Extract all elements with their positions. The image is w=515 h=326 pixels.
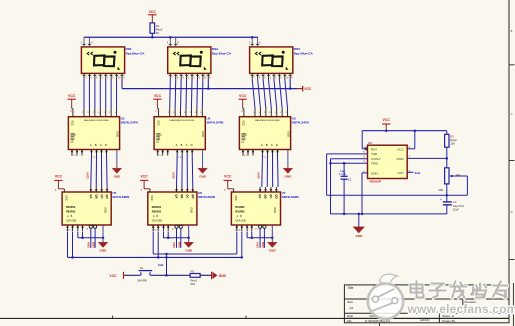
svg-text:Cap Pol1: Cap Pol1 [453, 204, 465, 208]
wires U2 inputs to counter outputs [177, 155, 193, 188]
svg-text:A: A [176, 143, 178, 147]
svg-text:3 5 4: 3 5 4 [242, 155, 248, 157]
svg-text:A B: A B [67, 215, 73, 218]
svg-text:B: B [181, 143, 183, 147]
power port +VCC [296, 86, 312, 92]
7-segment display DS2 Dpy Blue-CA [168, 47, 211, 74]
power port VCC (switch) [110, 272, 124, 279]
U7 reset wires to ground [247, 232, 272, 238]
svg-text:2 3 6 7: 2 3 6 7 [66, 229, 73, 231]
U3 top pin stubs and numbers [241, 109, 289, 117]
junction reset wire (U7) [251, 236, 254, 239]
junction reset wire (U5) [81, 236, 84, 239]
svg-text:R01R02: R01R02 [152, 206, 162, 209]
svg-text:510: 510 [191, 282, 196, 286]
wire top anode bus [84, 36, 258, 38]
svg-text:D: D [105, 143, 107, 147]
U7 reset input pins [235, 225, 253, 231]
svg-text:3 5 4: 3 5 4 [71, 155, 77, 157]
DS1 anode pins 3,8 to top bus [81, 37, 94, 47]
DS2 anode pins 3,8 to top bus [167, 36, 180, 47]
svg-text:CKA: CKA [172, 242, 176, 248]
label U3 [292, 116, 309, 124]
svg-text:D: D [191, 143, 193, 147]
svg-text:R5: R5 [191, 269, 195, 273]
wire 555 top bus [362, 131, 447, 149]
svg-text:3 5 4: 3 5 4 [157, 155, 163, 157]
wire OUT [407, 171, 413, 173]
svg-text:THR: THR [371, 152, 378, 156]
border zone letters right edge [511, 29, 513, 214]
svg-text:R4: R4 [456, 173, 460, 177]
svg-text:SN74LS47N: SN74LS47N [292, 120, 309, 124]
wire switch node to bus [166, 254, 168, 275]
title block frame [344, 285, 509, 323]
label U6 [198, 191, 215, 199]
DS2 cathode pins (bottom) [169, 73, 212, 79]
svg-text:Res2: Res2 [450, 138, 457, 142]
svg-text:D: D [276, 143, 278, 147]
U1 top pin stubs and numbers [70, 109, 118, 117]
555 pin numbers [363, 146, 410, 173]
svg-text:U4: U4 [368, 141, 372, 145]
svg-text:RST: RST [371, 147, 377, 151]
svg-text:QB: QB [94, 194, 98, 198]
svg-text:CKB: CKB [92, 242, 96, 248]
svg-text:1Hz: 1Hz [415, 171, 421, 175]
svg-text:1FA01FB01FC01FD01FE0: 1FA01FB01FC01FD01FE0 [84, 119, 110, 122]
svg-text:20K: 20K [438, 188, 443, 192]
svg-text:B: B [95, 143, 97, 147]
sheet bottom border [0, 317, 509, 319]
svg-text:SW-PB: SW-PB [137, 278, 146, 282]
svg-text:GND: GND [355, 234, 363, 238]
svg-text:SN74LS47N: SN74LS47N [121, 120, 138, 124]
segment wires DS2 to U2 [170, 79, 203, 109]
svg-text:VCC: VCC [234, 195, 238, 201]
ground (U5) [98, 242, 108, 252]
svg-text:Dpy Blue-CA: Dpy Blue-CA [126, 51, 146, 55]
U7 GND pin wire [271, 225, 273, 242]
svg-text:QB: QB [180, 194, 184, 198]
border zone tick marks right edge [509, 65, 515, 260]
svg-text:CKA: CKA [86, 242, 90, 248]
svg-text:S1: S1 [140, 266, 144, 270]
U5 reset input pins [66, 225, 84, 231]
svg-text:GND: GND [104, 207, 108, 213]
U3 BCD input pins A-D [261, 150, 279, 160]
wire clock bus B [68, 232, 242, 258]
svg-text:VCC: VCC [156, 120, 160, 126]
U6 clock pins CKA CKB (bubbles) [171, 225, 182, 248]
wire S1 to R5 [154, 274, 190, 276]
junction R1/top bus [151, 36, 154, 39]
svg-text:GND: GND [273, 207, 277, 213]
svg-text:A B: A B [152, 215, 158, 218]
label U2 [207, 116, 224, 124]
svg-text:CKA CKB: CKA CKB [235, 220, 245, 223]
svg-text:VCC: VCC [242, 120, 246, 126]
svg-text:B: B [266, 143, 268, 147]
resistor R1 1K [150, 23, 163, 35]
DS3 anode pins 3,8 to top bus [249, 36, 262, 47]
U1 bottom input pins LT RBI RBO [71, 150, 84, 157]
wire 555 ground bus [331, 213, 447, 215]
junction switch node [165, 274, 168, 277]
junction GND wire (U5) [102, 236, 105, 239]
title block texts [347, 286, 476, 323]
net labels CKA CKB (vertical red) [86, 242, 95, 248]
junction bus B / U7 pin [241, 256, 244, 259]
svg-text:GND: GND [285, 175, 293, 179]
junction gnd symbol / ground bus [358, 213, 361, 216]
DS1 cathode pins (bottom) [83, 73, 126, 79]
ground (U1) [112, 168, 122, 178]
svg-text:C: C [511, 112, 513, 116]
svg-text:VCC: VCC [110, 274, 118, 278]
sheet right border [508, 0, 510, 323]
power port VCC (U7) [224, 174, 234, 192]
junction C1 / ground bus [343, 213, 346, 216]
svg-text:Title: Title [348, 286, 354, 290]
svg-text:CKA CKB: CKA CKB [152, 220, 162, 223]
svg-text:R01R02: R01R02 [66, 206, 76, 209]
svg-text:C: C [100, 143, 102, 147]
U6 reset input pins [152, 225, 170, 231]
wire +VCC bus (displays common) [122, 79, 298, 89]
U1 GND pin wire [116, 150, 118, 169]
power port VCC (555) [382, 118, 390, 131]
label U1 [121, 116, 138, 124]
svg-text:QA0: QA0 [257, 172, 261, 179]
svg-text:1K: 1K [156, 31, 160, 35]
svg-text:QA0: QA0 [171, 172, 175, 179]
U6 reset wires to ground [164, 232, 189, 238]
counter U5 SN74LS90N [62, 192, 111, 225]
wires U3 inputs to counter outputs [262, 155, 278, 188]
U5 clock pins CKA CKB (bubbles) [86, 225, 97, 248]
svg-text:Date: Date [347, 314, 354, 318]
svg-text:R3: R3 [450, 135, 454, 139]
svg-text:A B: A B [236, 215, 242, 218]
svg-text:A: A [90, 143, 92, 147]
svg-text:R91R92: R91R92 [152, 210, 162, 213]
svg-text:R91R92: R91R92 [66, 210, 76, 213]
svg-text:VCC: VCC [55, 174, 63, 178]
wire 555 GND pin down [362, 173, 368, 214]
outer border bottom right [512, 283, 514, 326]
junction DS2 pin to +VCC bus [207, 87, 210, 90]
wire clock bus A [153, 232, 237, 255]
wire R5 to GND [200, 274, 212, 276]
junction switch node / bus A [165, 253, 168, 256]
net labels CKA CKB (vertical red) [256, 242, 265, 248]
svg-text:22K: 22K [450, 141, 455, 145]
junction C1 top / TRIG wire [343, 162, 346, 165]
svg-text:VCC: VCC [140, 174, 148, 178]
svg-text:CVOLT: CVOLT [371, 157, 381, 161]
wire DISC to R3 bottom [407, 157, 447, 159]
svg-text:VCC: VCC [224, 174, 232, 178]
svg-text:GND: GND [371, 171, 379, 175]
svg-text:SN74LS90N: SN74LS90N [282, 195, 299, 199]
svg-text:C: C [186, 143, 188, 147]
net labels CKA CKB (vertical red) [172, 242, 181, 248]
U5 reset wires to ground [78, 232, 103, 238]
svg-text:D: D [511, 210, 513, 214]
svg-text:GND: GND [219, 274, 227, 278]
svg-text:VCC: VCC [154, 94, 162, 98]
junction DISC/R3/pot [446, 157, 449, 160]
ground (U7) [268, 242, 278, 252]
svg-text:SN74LS47N: SN74LS47N [207, 120, 224, 124]
watermark text dianzifashaoyou [411, 282, 508, 298]
svg-text:2 3 6 7: 2 3 6 7 [235, 229, 242, 231]
wires U1 inputs to counter outputs [91, 155, 107, 188]
wire timing node bus [327, 194, 468, 196]
U5 output pin stubs QA-QD [90, 187, 110, 192]
power port VCC (top, for R1) [148, 10, 156, 23]
svg-text:CKA: CKA [256, 242, 260, 248]
title block bottom zone tick [378, 323, 380, 326]
U2 GND pin wire [202, 150, 204, 169]
segment wires DS3 to U3 [252, 79, 287, 109]
svg-text:QD: QD [105, 194, 109, 198]
svg-text:VCC: VCC [383, 118, 391, 122]
svg-text:R91R92: R91R92 [235, 210, 245, 213]
junction pin8 riser / top bus [414, 129, 417, 132]
wire R1 bottom to top bus [151, 33, 153, 37]
svg-text:File: File [347, 319, 352, 323]
svg-text:+: + [440, 198, 442, 202]
power port VCC (U6) [140, 174, 150, 192]
svg-text:Drawn By:: Drawn By: [442, 319, 456, 323]
svg-text:SN74LS90N: SN74LS90N [112, 195, 129, 199]
7-segment display DS1 Dpy Blue-CA [81, 47, 124, 74]
svg-text:C1: C1 [348, 178, 352, 182]
U1 BCD input pins A-D [90, 150, 108, 160]
svg-text:SN74LS90N: SN74LS90N [198, 195, 215, 199]
border zone tick marks bottom edge [113, 316, 246, 319]
svg-text:R01R02: R01R02 [235, 206, 245, 209]
junction VCC / top bus [385, 129, 388, 132]
7-segment display DS3 Dpy Blue-CA [250, 47, 293, 74]
U7 clock pins CKA CKB (bubbles) [255, 225, 266, 248]
segment wires DS1 to U1 [84, 79, 117, 109]
junction DS3 pin to +VCC bus [289, 87, 292, 90]
junction reset wire (U6) [167, 236, 170, 239]
svg-text:QD: QD [274, 194, 278, 198]
svg-text:2 3 6 7: 2 3 6 7 [152, 229, 159, 231]
ground (U3) [283, 168, 293, 178]
junction GND pin / ground bus [361, 213, 364, 216]
svg-text:VCC: VCC [71, 120, 75, 126]
svg-text:DISC: DISC [397, 157, 405, 161]
wire TRIG [331, 162, 368, 164]
wire to ground symbol [358, 214, 360, 227]
svg-text:Size: Size [347, 300, 353, 304]
svg-text:Dpy Blue-CA: Dpy Blue-CA [294, 51, 314, 55]
svg-text:A4: A4 [350, 306, 354, 310]
svg-text:VCC: VCC [68, 94, 76, 98]
svg-text:GND: GND [114, 175, 122, 179]
svg-text:QB: QB [264, 194, 268, 198]
svg-text:GND: GND [269, 249, 277, 253]
ground (U2) [198, 168, 208, 178]
power port VCC (U2) [153, 94, 161, 109]
svg-text:CKA CKB: CKA CKB [66, 220, 76, 223]
svg-text:QD: QD [191, 194, 195, 198]
junction GND wire (U7) [271, 236, 274, 239]
label DS2 [212, 47, 232, 55]
svg-text:OUT: OUT [397, 171, 404, 175]
potentiometer R4 20K [438, 158, 467, 202]
svg-text:B: B [511, 29, 513, 33]
svg-text:VCC: VCC [304, 87, 312, 91]
ground (U6) [184, 242, 194, 252]
ground (555) [353, 227, 365, 238]
svg-text:CKB: CKB [177, 242, 181, 248]
resistor R5 510 [190, 269, 200, 285]
svg-text:A: A [261, 143, 263, 147]
svg-text:1FA01FB01FC01FD01FE0: 1FA01FB01FC01FD01FE0 [255, 119, 281, 122]
svg-text:NE555P: NE555P [370, 179, 382, 183]
decoder U2 SN74LS47N [154, 117, 205, 150]
decoder U1 SN74LS47N [68, 117, 119, 150]
svg-text:TRIG: TRIG [371, 162, 379, 166]
svg-text:GND: GND [199, 175, 207, 179]
svg-text:Dpy Blue-CA: Dpy Blue-CA [212, 51, 232, 55]
svg-text:GND: GND [100, 249, 108, 253]
svg-text:VCC: VCC [150, 195, 154, 201]
svg-text:1FA01FB01FC01FD01FE0: 1FA01FB01FC01FD01FE0 [169, 119, 195, 122]
power port GND (right arrow style) [212, 272, 227, 280]
junction TRIG/CVOLT riser [329, 162, 332, 165]
capacitor C2 Cap Pol1 22uF [440, 198, 464, 214]
wire THR to timing node [327, 154, 368, 195]
U7 output pin stubs QA-QD [259, 187, 279, 192]
svg-text:GND: GND [185, 249, 193, 253]
junction bus B / U5 pin [71, 256, 74, 259]
label U7 [282, 191, 299, 199]
svg-text:VCC: VCC [65, 195, 69, 201]
wire VCC to S1 [124, 274, 137, 276]
U6 output pin stubs QA-QD [175, 187, 195, 192]
junction switch node / bus B [165, 256, 168, 259]
U3 bottom input pins LT RBI RBO [242, 150, 255, 157]
U2 BCD input pins A-D [176, 150, 194, 160]
wire CVOLT [331, 159, 368, 214]
counter U6 SN74LS90N [148, 192, 197, 225]
svg-text:CKB: CKB [261, 242, 265, 248]
DS3 cathode pins (bottom) [251, 73, 294, 79]
capacitor C1 [339, 163, 352, 214]
resistor R3 22K [445, 131, 457, 159]
label DS1 [126, 47, 146, 55]
power port VCC (U5) [54, 174, 64, 192]
U2 bottom input pins LT RBI RBO [156, 150, 169, 157]
svg-text:VCC: VCC [397, 147, 404, 151]
U5 GND pin wire [102, 225, 104, 242]
svg-text:www.elecfans.com: www.elecfans.com [407, 302, 515, 316]
U3 GND pin wire [287, 150, 289, 169]
label U5 [112, 191, 129, 199]
svg-text:1Hz: 1Hz [158, 263, 164, 267]
svg-text:GND: GND [115, 131, 119, 137]
svg-text:22uF: 22uF [453, 207, 459, 211]
svg-text:VCC: VCC [149, 10, 157, 14]
timer U4 NE555P [365, 145, 407, 178]
U6 GND pin wire [188, 225, 190, 242]
power port VCC (U3) [239, 94, 247, 109]
junction GND wire (U6) [187, 236, 190, 239]
svg-text:GND: GND [189, 207, 193, 213]
decoder U3 SN74LS47N [239, 117, 290, 150]
junction bus B / U6 pin [157, 256, 160, 259]
switch S1 SW-PB [137, 266, 154, 282]
svg-text:4.7uF: 4.7uF [339, 172, 346, 176]
label DS3 [294, 47, 314, 55]
watermark logo circle [368, 274, 403, 319]
counter U7 SN74LS90N [231, 192, 280, 225]
svg-text:QA0: QA0 [86, 172, 90, 179]
svg-text:C: C [271, 143, 273, 147]
svg-text:GND: GND [286, 131, 290, 137]
power port VCC (U1) [68, 94, 76, 109]
U2 top pin stubs and numbers [155, 109, 203, 117]
svg-text:GND: GND [201, 131, 205, 137]
svg-text:AdvSch: AdvSch [420, 318, 430, 322]
svg-text:VCC: VCC [239, 94, 247, 98]
svg-text:C2: C2 [453, 200, 457, 204]
junction pot bottom / timing bus [446, 194, 449, 197]
